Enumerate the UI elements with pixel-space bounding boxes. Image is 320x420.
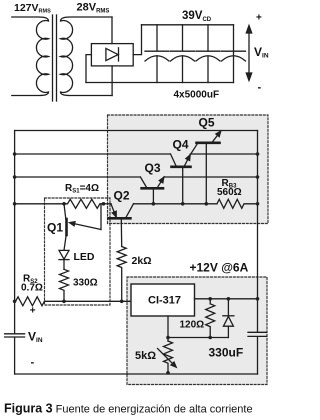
- right bus wire: [257, 131, 259, 332]
- dashed shaded box regulator section: [127, 277, 267, 385]
- capacitor bank C3: [196, 25, 220, 83]
- svg-text:28VRMS: 28VRMS: [77, 2, 110, 15]
- resistor 2k: [117, 247, 126, 302]
- svg-text:39VCD: 39VCD: [182, 10, 212, 23]
- wire secondary top to bridge: [111, 17, 113, 44]
- node pot bottom: [166, 371, 170, 375]
- transistor Q1: [64, 204, 101, 251]
- node left bus rail2: [13, 152, 17, 156]
- svg-text:5kΩ: 5kΩ: [135, 350, 156, 362]
- svg-text:-: -: [31, 357, 35, 369]
- svg-text:Q2: Q2: [114, 188, 130, 202]
- node right bus rail2: [256, 152, 260, 156]
- wire bridge right to positive rail: [133, 25, 141, 55]
- node Q3 base: [152, 202, 156, 206]
- wire bridge bottom to secondary bottom: [111, 66, 113, 96]
- transformer T1 secondary winding: [61, 17, 113, 96]
- LED D2: [59, 250, 69, 269]
- svg-text:-: -: [258, 82, 262, 94]
- diode D3: [223, 299, 234, 338]
- node Q5 base: [205, 202, 209, 206]
- bridge rectifier D1 box: [91, 44, 133, 66]
- svg-text:Q5: Q5: [199, 116, 215, 130]
- dashed shaded box transistor bank: [108, 115, 269, 224]
- svg-text:560Ω: 560Ω: [217, 187, 242, 198]
- resistor RS1 4ohm: [64, 199, 104, 208]
- dashed box LED indicator section: [45, 198, 111, 305]
- node output diode: [227, 297, 231, 301]
- svg-text:+: +: [30, 306, 36, 317]
- transistor Q5: [191, 131, 222, 204]
- svg-text:120Ω: 120Ω: [180, 320, 205, 331]
- svg-text:LED: LED: [74, 251, 95, 263]
- left bus wire: [14, 131, 16, 334]
- node 120ohm bottom: [208, 336, 212, 340]
- rail 1 wire: [15, 130, 258, 132]
- node RS1 left: [62, 202, 66, 206]
- svg-text:RS1=4Ω: RS1=4Ω: [65, 183, 99, 195]
- svg-text:Q4: Q4: [173, 138, 189, 152]
- resistor RB3 560ohm: [217, 199, 258, 208]
- node 2k bottom: [120, 300, 124, 304]
- node right bus rail4: [256, 202, 260, 206]
- wire RS2 to CI-317 input: [45, 300, 131, 302]
- capacitor Vin source: [5, 334, 25, 374]
- bottom rail wire: [15, 373, 258, 375]
- node output right bus: [256, 297, 260, 301]
- capacitor bank C2: [171, 25, 195, 83]
- capacitor bank C4: [222, 25, 246, 83]
- wire negative DC rail: [86, 82, 234, 84]
- rail 2 wire right: [190, 153, 257, 155]
- rail 4 wire left: [15, 203, 64, 205]
- wire bridge left to negative rail: [86, 55, 91, 83]
- node right bus rail3: [256, 175, 260, 179]
- svg-text:2kΩ: 2kΩ: [132, 255, 152, 267]
- node output 120ohm: [208, 297, 212, 301]
- rail 4 wire middle: [134, 203, 218, 205]
- node left bus rail3: [13, 175, 17, 179]
- node RS2 left: [13, 300, 17, 304]
- wire CI-317 adj pin: [167, 316, 169, 341]
- transistor Q3: [140, 177, 164, 204]
- svg-text:Q1: Q1: [47, 220, 63, 234]
- svg-text:4x5000uF: 4x5000uF: [174, 90, 220, 101]
- svg-text:Q3: Q3: [145, 161, 161, 175]
- svg-text:+12V @6A: +12V @6A: [190, 261, 249, 275]
- transistor Q4: [171, 154, 191, 204]
- svg-text:VIN: VIN: [254, 45, 269, 60]
- svg-text:+: +: [256, 12, 262, 23]
- node Q4 base: [181, 202, 185, 206]
- bridge rectifier diode symbol: [106, 48, 118, 60]
- rail 3 wire right: [164, 176, 258, 178]
- node RS1 right: [102, 202, 106, 206]
- svg-text:Figura 3 Fuente de energizació: Figura 3 Fuente de energización de alta …: [4, 402, 253, 416]
- transformer T1 primary winding: [12, 17, 49, 96]
- node 330ohm bottom: [62, 300, 66, 304]
- svg-text:330Ω: 330Ω: [73, 278, 98, 289]
- potentiometer 5k: [158, 341, 177, 374]
- wire positive DC rail: [142, 24, 234, 26]
- svg-text:VIN: VIN: [28, 330, 43, 345]
- transistor Q2: [104, 204, 134, 247]
- resistor RS2 0.7ohm: [15, 297, 45, 306]
- svg-text:127VRMS: 127VRMS: [14, 2, 51, 15]
- resistor 330ohm: [60, 269, 69, 301]
- rail 2 wire left: [15, 153, 171, 155]
- resistor 120ohm: [206, 299, 215, 338]
- svg-text:CI-317: CI-317: [148, 295, 181, 307]
- rail 3 wire left: [15, 176, 141, 178]
- transformer T1 core: [52, 15, 54, 101]
- wire adj to 120ohm bottom: [168, 337, 228, 339]
- node adj: [166, 336, 170, 340]
- node left bus rail4: [13, 202, 17, 206]
- wire CI-317 output: [195, 298, 258, 300]
- capacitor 330uF: [248, 332, 267, 374]
- svg-text:0.7Ω: 0.7Ω: [21, 283, 43, 294]
- Vin measurement arrow: [246, 26, 251, 81]
- svg-text:330uF: 330uF: [209, 346, 244, 360]
- capacitor bank C1: [145, 25, 169, 83]
- regulator CI-317 box: [131, 284, 195, 316]
